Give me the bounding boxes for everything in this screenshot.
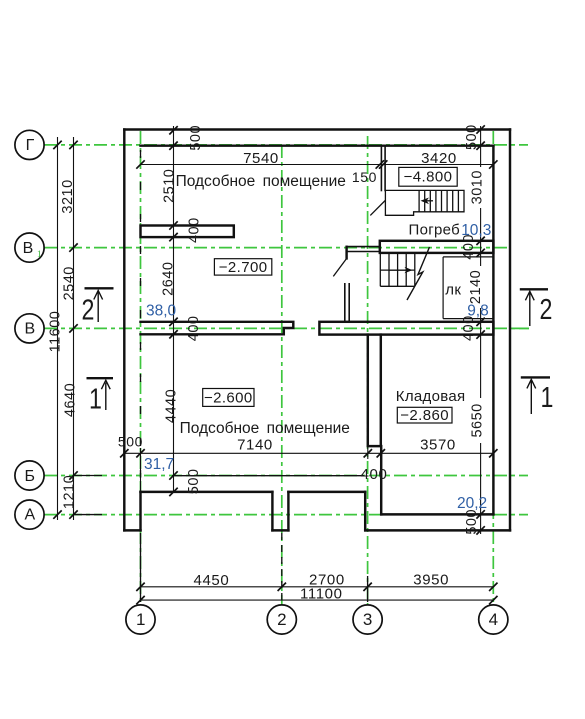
- svg-text:31,7: 31,7: [144, 456, 174, 473]
- svg-text:500: 500: [464, 124, 480, 150]
- svg-text:500: 500: [188, 125, 204, 151]
- svg-text:1: 1: [89, 382, 102, 415]
- svg-text:1: 1: [37, 249, 42, 259]
- svg-text:500: 500: [464, 509, 480, 535]
- svg-text:500: 500: [186, 469, 202, 495]
- svg-text:Б: Б: [25, 468, 36, 485]
- svg-text:10,3: 10,3: [461, 222, 491, 239]
- svg-text:Кладовая: Кладовая: [396, 388, 466, 405]
- svg-text:−2.700: −2.700: [219, 259, 268, 276]
- svg-text:11600: 11600: [47, 311, 63, 353]
- svg-text:−2.860: −2.860: [400, 407, 449, 424]
- svg-text:2: 2: [82, 293, 95, 326]
- svg-text:3: 3: [363, 610, 372, 629]
- svg-text:Подсобное помещение: Подсобное помещение: [180, 420, 350, 437]
- svg-text:−4.800: −4.800: [404, 169, 453, 186]
- svg-text:1210: 1210: [61, 475, 77, 509]
- svg-text:2: 2: [540, 292, 553, 325]
- svg-text:−2.600: −2.600: [204, 389, 253, 406]
- svg-text:400: 400: [187, 217, 203, 243]
- svg-text:4640: 4640: [62, 383, 78, 417]
- svg-text:400: 400: [186, 316, 202, 342]
- svg-text:1: 1: [136, 610, 145, 629]
- svg-text:500: 500: [118, 434, 143, 450]
- svg-text:2640: 2640: [160, 262, 176, 296]
- svg-text:2140: 2140: [468, 270, 484, 304]
- svg-text:7540: 7540: [243, 150, 279, 167]
- svg-text:лк: лк: [445, 282, 461, 299]
- svg-text:А: А: [24, 506, 35, 523]
- svg-text:2540: 2540: [62, 266, 78, 300]
- svg-text:9,8: 9,8: [467, 303, 489, 320]
- svg-text:В: В: [24, 321, 35, 338]
- svg-text:3210: 3210: [60, 179, 76, 213]
- svg-text:1: 1: [541, 380, 554, 413]
- svg-text:4: 4: [489, 610, 498, 629]
- svg-text:Г: Г: [26, 137, 35, 154]
- svg-text:2: 2: [277, 610, 286, 629]
- svg-text:4440: 4440: [163, 389, 179, 423]
- svg-text:4450: 4450: [194, 572, 230, 589]
- svg-text:11100: 11100: [300, 586, 343, 603]
- svg-text:В: В: [23, 240, 34, 257]
- svg-text:20,2: 20,2: [457, 495, 487, 512]
- svg-text:3570: 3570: [420, 437, 456, 454]
- svg-text:3010: 3010: [469, 170, 485, 204]
- svg-text:Погреб: Погреб: [409, 221, 461, 238]
- svg-text:5650: 5650: [470, 403, 486, 437]
- svg-text:7140: 7140: [237, 437, 273, 454]
- svg-text:3420: 3420: [421, 150, 457, 167]
- svg-text:150: 150: [352, 169, 377, 185]
- svg-text:38,0: 38,0: [146, 302, 177, 319]
- svg-text:400: 400: [361, 466, 388, 483]
- svg-text:Подсобное помещение: Подсобное помещение: [176, 173, 346, 190]
- svg-text:3950: 3950: [413, 572, 449, 589]
